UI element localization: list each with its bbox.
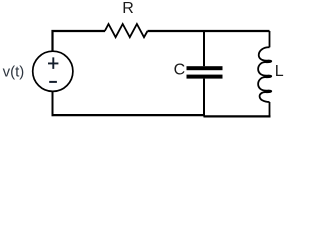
resistor R: [105, 24, 148, 37]
wire: top-left segment from source top corner to resistor: [53, 31, 106, 52]
wire: bottom rail right segment: [204, 115, 271, 117]
wire: top-right segment from resistor to inductor corner: [148, 30, 270, 32]
capacitor C top plate: [187, 66, 223, 70]
wire: inductor bottom lead: [269, 102, 271, 117]
svg-text:R: R: [122, 0, 134, 17]
wire: capacitor bottom lead: [203, 79, 205, 117]
plus sign: [48, 57, 58, 69]
svg-text:v(t): v(t): [3, 64, 25, 81]
inductor L coil: [258, 47, 271, 102]
wire: source bottom lead: [52, 91, 54, 116]
voltage source v(t): [33, 51, 73, 91]
wire: bottom rail left segment: [52, 114, 206, 116]
capacitor C bottom plate: [187, 75, 223, 79]
minus sign: [49, 81, 57, 83]
svg-text:L: L: [275, 63, 284, 80]
svg-text:C: C: [174, 62, 186, 79]
wire: inductor top lead: [269, 31, 271, 47]
wire: capacitor top lead: [203, 32, 205, 66]
